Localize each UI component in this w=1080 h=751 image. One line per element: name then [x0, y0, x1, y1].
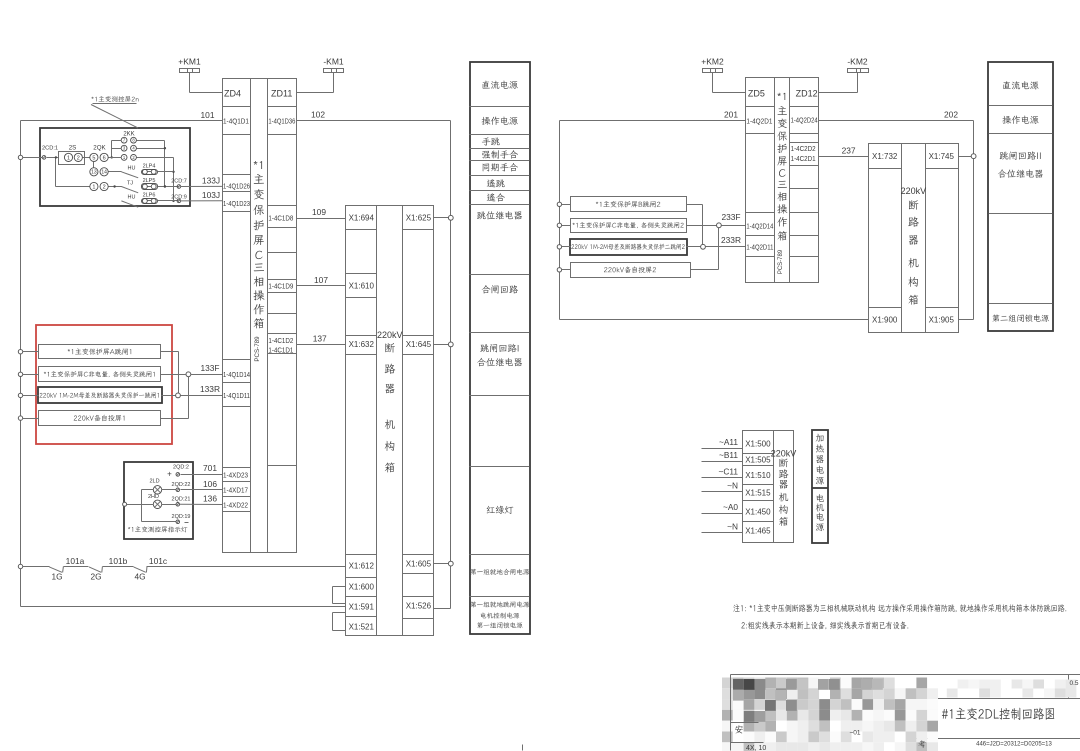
terminal 1-4Q1D14	[223, 370, 250, 379]
signal box C-nonelec-1	[39, 367, 161, 382]
fuse terminal -KM2	[847, 56, 868, 92]
wire 101c segment	[103, 556, 168, 566]
legend trip circuit I / closed position relay	[477, 344, 522, 367]
wire 109	[297, 207, 346, 219]
svg-text:X1:900: X1:900	[872, 315, 898, 324]
legend operating power 2	[1002, 116, 1038, 124]
svg-text:X1:500: X1:500	[745, 439, 771, 448]
terminal X1:732	[872, 152, 898, 161]
fuse terminal +KM1	[178, 56, 201, 92]
svg-text:1-4Q1D14: 1-4Q1D14	[223, 370, 250, 379]
wire +KM2 to ZD5	[713, 92, 746, 94]
ZD11 cell dividers	[268, 107, 297, 466]
svg-text:~N: ~N	[727, 481, 738, 491]
svg-text:103J: 103J	[202, 190, 220, 200]
wire 136	[180, 494, 222, 505]
svg-text:+KM1: +KM1	[178, 56, 201, 66]
jumper X1:591 to X1:521	[333, 613, 346, 631]
terminal 2QD:21	[172, 497, 191, 506]
svg-text:5: 5	[92, 155, 95, 161]
svg-text:101b: 101b	[109, 556, 128, 566]
wire 137	[297, 333, 346, 344]
svg-text:X1:905: X1:905	[929, 315, 955, 324]
svg-text:X1:465: X1:465	[745, 526, 771, 535]
legend trip circuit II / closed position relay 2	[998, 151, 1043, 178]
signal box B-trip-2	[571, 197, 687, 212]
jumper X1:600 to X1:591	[333, 587, 346, 604]
wire -KM2 to ZD12	[819, 92, 858, 94]
wire -KM1 to ZD11	[297, 92, 334, 94]
terminal block ZD5 outline	[746, 78, 819, 283]
terminal 1-4XD23	[223, 470, 248, 479]
terminal 1-4Q1D11	[223, 391, 250, 400]
legend trip position relay	[477, 211, 522, 219]
wire box C to 133F node	[161, 374, 186, 376]
terminal 1-4C2D2 / 1-4C2D1	[791, 144, 816, 163]
wire ~A0	[702, 502, 743, 513]
svg-text:X1:521: X1:521	[349, 622, 375, 631]
terminal X1:605	[406, 560, 432, 569]
signal box 220kV autoswitch-1	[39, 411, 161, 426]
X1 left column dividers	[346, 230, 377, 617]
terminal 1-4Q1D1	[223, 117, 249, 126]
svg-text:X1:505: X1:505	[745, 456, 771, 465]
svg-text:2: 2	[132, 155, 135, 160]
wire box C2 to 233F node	[687, 225, 717, 227]
svg-text:233F: 233F	[721, 212, 740, 222]
svg-text:~01: ~01	[849, 729, 860, 736]
contact TJ with link 2LP5	[121, 178, 178, 193]
legend red green lamp	[487, 506, 514, 514]
svg-text:X1:515: X1:515	[745, 489, 771, 498]
terminal 2CD:7	[171, 179, 187, 189]
indicator lamp box outline	[124, 462, 193, 539]
junction node 233R	[701, 244, 706, 249]
svg-text:~B11: ~B11	[719, 450, 738, 460]
signal box 220kV autoswitch-2	[571, 263, 691, 278]
terminal 1-4C1D8	[268, 213, 293, 222]
svg-text:2CD:1: 2CD:1	[42, 145, 58, 151]
terminal X1:612	[349, 562, 375, 571]
svg-text:220kV: 220kV	[377, 330, 403, 340]
right vertical bus group 2	[959, 121, 974, 320]
wire X1:745 to bus	[959, 154, 976, 159]
wire box autoswitch2 up to 233F node	[691, 226, 719, 270]
X1 right column dividers	[403, 230, 434, 619]
terminal X1:610	[349, 281, 375, 290]
svg-text:220kV: 220kV	[771, 449, 797, 459]
svg-text:1-4C1D1: 1-4C1D1	[268, 345, 293, 354]
lamp 2LD	[149, 479, 176, 494]
AC supply terminal box outline	[743, 431, 794, 543]
terminal 1-4Q1D23	[223, 199, 250, 208]
label 220kV breaker mechanism box 1	[377, 330, 403, 472]
svg-text:ZD5: ZD5	[748, 89, 765, 99]
note 1	[733, 604, 1066, 612]
legend panel 1 outline	[470, 62, 530, 634]
legend closing circuit	[482, 285, 518, 294]
drawing number	[976, 742, 1052, 748]
legend DC power	[483, 81, 518, 89]
wire X1:625 to bus	[434, 215, 454, 220]
svg-text:1-4Q2D11: 1-4Q2D11	[746, 243, 773, 252]
svg-text:1G: 1G	[51, 571, 62, 581]
wire box B to 233R node	[687, 205, 703, 247]
terminal 2QD:22	[172, 482, 191, 491]
svg-text:2S: 2S	[69, 144, 77, 151]
terminal 2CD:9	[171, 194, 187, 202]
svg-text:X1:526: X1:526	[406, 602, 432, 611]
svg-text:1-4Q1D23: 1-4Q1D23	[223, 199, 250, 208]
svg-text:1-4XD17: 1-4XD17	[223, 485, 248, 494]
terminal X1:625	[406, 214, 432, 223]
wire 701	[181, 463, 223, 474]
svg-text:701: 701	[203, 463, 217, 473]
terminal X1:450	[745, 507, 771, 516]
svg-text:1-4Q2D1: 1-4Q2D1	[746, 117, 772, 126]
label indicator lamps	[128, 526, 187, 532]
wire 101	[21, 110, 223, 121]
svg-text:1-4Q2D24: 1-4Q2D24	[791, 115, 818, 124]
label PCS-789	[254, 336, 261, 362]
svg-text:X1:694: X1:694	[349, 214, 375, 223]
svg-text:X1:591: X1:591	[349, 602, 375, 611]
svg-text:1: 1	[123, 155, 126, 160]
svg-text:1-4Q1D26: 1-4Q1D26	[223, 181, 250, 190]
fuse terminal +KM2	[701, 56, 724, 92]
svg-text:X1:732: X1:732	[872, 152, 898, 161]
svg-text:2CD:7: 2CD:7	[171, 179, 187, 185]
svg-text:~N: ~N	[727, 522, 738, 532]
terminal 1-4C1D2 / 1-4C1D1	[268, 336, 293, 354]
svg-text:PCS-789: PCS-789	[778, 249, 784, 274]
svg-text:X1:605: X1:605	[406, 560, 432, 569]
svg-text:2HD: 2HD	[148, 494, 159, 500]
legend forced manual close	[482, 150, 518, 159]
title text #1 main transformer 2DL control circuit diagram	[942, 708, 1054, 720]
wire X1:605 to bus	[434, 561, 454, 566]
svg-text:133J: 133J	[202, 176, 220, 186]
svg-text:202: 202	[944, 110, 958, 120]
svg-text:X1:625: X1:625	[406, 214, 432, 223]
terminal X1:632	[349, 340, 375, 349]
label heater power	[816, 434, 824, 485]
bottom tick	[522, 745, 524, 751]
title block frame	[731, 675, 1080, 751]
wire X1:645 to bus	[434, 342, 454, 347]
X2 right dividers	[926, 169, 959, 308]
switch 2S	[59, 144, 90, 164]
label motor power	[816, 494, 824, 531]
terminal block ZD4 outline	[223, 79, 297, 553]
legend panel 2 dividers	[989, 106, 1053, 304]
svg-text:1-4XD22: 1-4XD22	[223, 500, 248, 509]
wire ~A11	[702, 437, 743, 449]
svg-text:-KM2: -KM2	[847, 56, 868, 66]
terminal 1-4Q2D11	[746, 243, 773, 252]
contact HU with link 2LP4	[121, 163, 173, 177]
svg-text:1-4Q1D1: 1-4Q1D1	[223, 117, 249, 126]
terminal 2QD:19	[172, 514, 191, 523]
terminal 1-4XD17	[223, 485, 248, 494]
svg-text:4: 4	[132, 146, 135, 151]
svg-text:133R: 133R	[200, 384, 220, 394]
svg-text:2QK: 2QK	[93, 144, 106, 151]
svg-text:109: 109	[312, 207, 326, 217]
censored mosaic	[722, 678, 1076, 751]
annotation *1 metering panel 2n	[91, 96, 138, 128]
svg-text:1-4C2D2: 1-4C2D2	[791, 144, 816, 153]
wire 201	[560, 110, 746, 121]
svg-text:220kV: 220kV	[901, 186, 927, 196]
switch 2QK contacts 1-2	[55, 156, 122, 190]
control switch box outline	[40, 128, 190, 206]
junction node 233F	[717, 223, 722, 228]
junction node 133R	[176, 393, 181, 398]
wire 133J	[181, 176, 222, 187]
svg-text:TJ: TJ	[127, 180, 133, 186]
wire ~N1	[702, 481, 743, 492]
svg-text:1-4XD23: 1-4XD23	[223, 470, 248, 479]
svg-text:7: 7	[123, 138, 126, 143]
svg-text:X1:610: X1:610	[349, 281, 375, 290]
heater motor power box outline	[812, 430, 828, 543]
terminal 2CD:1	[23, 145, 59, 159]
wire box autoswitch up to 133F node	[161, 375, 189, 419]
note 2	[741, 621, 908, 629]
svg-text:133F: 133F	[200, 363, 219, 373]
terminal 1-4C1D9	[268, 281, 293, 290]
terminal 1-4Q2D24	[791, 115, 818, 124]
svg-text:2: 2	[77, 155, 80, 161]
svg-text:2LP4: 2LP4	[143, 163, 156, 169]
terminal 1-4Q1D36	[268, 117, 295, 126]
partially visible residual marks	[735, 680, 1079, 751]
svg-text:X1:612: X1:612	[349, 562, 375, 571]
wire box busdiff2 to 233R node	[687, 246, 701, 248]
label ZD11	[271, 89, 292, 99]
terminal 2QD:2	[167, 464, 189, 478]
terminal X1:505	[745, 456, 771, 465]
wire 102	[297, 110, 451, 121]
terminal 1-4Q1D26	[223, 181, 250, 190]
terminal 1-4XD22	[223, 500, 248, 509]
label 220kV breaker mechanism box 2	[901, 186, 927, 305]
red highlight box	[36, 325, 172, 444]
legend synchronized manual close	[483, 163, 518, 172]
signal box busdiff-trip-2 (bold)	[570, 239, 687, 255]
label 220kV breaker mechanism box 3	[771, 449, 797, 526]
svg-text:1-4Q1D11: 1-4Q1D11	[223, 391, 250, 400]
switch 4G	[134, 567, 147, 582]
legend first group local closing power	[470, 569, 529, 575]
legend DC power 2	[1003, 81, 1038, 89]
terminal X1:900	[872, 315, 898, 324]
wire 233F	[721, 212, 745, 225]
svg-text:+KM2: +KM2	[701, 56, 724, 66]
wire ~B11	[702, 450, 743, 461]
label PCS-789 group 2	[778, 249, 784, 274]
svg-text:6: 6	[103, 155, 106, 161]
legend remote trip	[487, 179, 505, 187]
breaker mechanism box 1 outline	[346, 206, 434, 636]
svg-text:2QD:2: 2QD:2	[173, 464, 189, 470]
AC box dividers	[743, 454, 774, 522]
wire +KM1 to ZD4	[190, 92, 223, 94]
2KK wiring	[109, 141, 175, 203]
svg-text:107: 107	[314, 275, 328, 285]
svg-text:X1:450: X1:450	[745, 507, 771, 516]
switch 1G	[49, 567, 63, 582]
svg-text:137: 137	[313, 333, 327, 343]
svg-text:PCS-789: PCS-789	[254, 336, 261, 362]
contact HU with link 2LP6	[121, 192, 178, 207]
svg-text:233R: 233R	[721, 235, 741, 245]
svg-text:X1:745: X1:745	[929, 152, 955, 161]
signal box A-trip-1	[39, 345, 161, 359]
terminal X1:526	[406, 602, 432, 611]
svg-text:ZD12: ZD12	[796, 89, 818, 99]
svg-text:2QD:22: 2QD:22	[172, 482, 191, 488]
svg-text:1-4C2D1: 1-4C2D1	[791, 154, 816, 163]
label ZD4	[224, 89, 241, 99]
wire 101a segment	[23, 556, 85, 566]
right vertical bus group1	[434, 121, 451, 609]
svg-text:~A0: ~A0	[723, 502, 738, 512]
ZD5 cell dividers	[746, 107, 775, 257]
svg-text:2QD:19: 2QD:19	[172, 514, 191, 520]
svg-text:2LD: 2LD	[149, 479, 159, 485]
svg-text:~A11: ~A11	[719, 437, 738, 447]
svg-text:102: 102	[311, 110, 325, 120]
bus junctions for signal boxes 2	[557, 202, 570, 272]
svg-text:1-4Q2D14: 1-4Q2D14	[746, 222, 773, 231]
svg-text:13: 13	[91, 170, 97, 176]
left bus wire	[21, 121, 346, 607]
svg-text:+: +	[167, 470, 172, 479]
legend first group local trip power	[470, 601, 529, 628]
legend manual trip	[482, 137, 500, 145]
auxiliary switch 2KK	[121, 131, 136, 160]
wire to X1:612	[147, 566, 346, 568]
svg-text:106: 106	[203, 479, 217, 489]
wire 133R	[181, 384, 223, 395]
svg-text:HU: HU	[128, 166, 136, 172]
svg-text:-KM1: -KM1	[323, 56, 344, 66]
svg-text:0.5: 0.5	[1069, 680, 1078, 687]
bus junctions for signal boxes 1	[18, 350, 38, 421]
terminal X1:500	[745, 439, 771, 448]
wire 133F	[191, 363, 223, 374]
label *1 main transformer protection panel C three-phase operation box	[253, 161, 264, 328]
svg-text:2LP6: 2LP6	[143, 192, 156, 198]
svg-text:2QD:21: 2QD:21	[172, 497, 191, 503]
wire 106	[181, 479, 223, 490]
svg-text:2G: 2G	[90, 571, 101, 581]
wire ~N2	[702, 522, 743, 533]
svg-text:237: 237	[842, 145, 856, 155]
wire 202	[819, 110, 974, 121]
label ZD5	[748, 89, 765, 99]
svg-text:~C11: ~C11	[719, 467, 739, 477]
wire 101b segment	[64, 556, 128, 566]
terminal 1-4Q2D14	[746, 222, 773, 231]
switch 2QK contacts 13-14	[90, 162, 122, 176]
legend panel 1 dividers	[470, 107, 530, 597]
signal box busdiff-trip-1 (bold)	[38, 387, 162, 403]
terminal X1:745	[929, 152, 955, 161]
title block left cell lines	[731, 675, 764, 751]
svg-text:2: 2	[103, 184, 106, 190]
svg-text:136: 136	[203, 494, 217, 504]
legend remote close	[487, 193, 505, 202]
svg-text:8: 8	[132, 138, 135, 143]
switch 2G	[89, 567, 102, 582]
svg-text:X1:600: X1:600	[349, 583, 375, 592]
label ZD12	[796, 89, 818, 99]
X2 left dividers	[869, 169, 902, 308]
svg-text:1-4C1D2: 1-4C1D2	[268, 336, 293, 345]
wire ~C11	[702, 467, 743, 478]
terminal X1:510	[745, 471, 771, 480]
svg-text:X1:645: X1:645	[406, 340, 432, 349]
svg-text:1: 1	[67, 155, 70, 161]
wire box busdiff to 133R node	[162, 395, 176, 397]
legend panel 2 outline	[988, 62, 1053, 331]
svg-text:X1:632: X1:632	[349, 340, 375, 349]
terminal X1:694	[349, 214, 375, 223]
terminal X1:600	[349, 583, 375, 592]
ZD4 cell dividers	[223, 107, 251, 512]
junction circle bottom bus	[18, 564, 22, 568]
svg-text:HU: HU	[128, 195, 136, 201]
svg-text:4G: 4G	[134, 571, 145, 581]
lamp box internal wiring	[123, 490, 177, 522]
svg-text:2KK: 2KK	[123, 131, 134, 137]
svg-text:1-4C1D9: 1-4C1D9	[268, 281, 293, 290]
svg-text:3: 3	[123, 146, 126, 151]
legend second group locking power	[992, 314, 1049, 322]
ZD12 cell dividers	[790, 107, 819, 257]
svg-text:101a: 101a	[66, 556, 85, 566]
svg-text:ZD4: ZD4	[224, 89, 241, 99]
svg-text:1: 1	[92, 184, 95, 190]
svg-text:101c: 101c	[149, 556, 167, 566]
terminal X1:521	[349, 622, 375, 631]
terminal 1-4Q2D1	[746, 117, 772, 126]
breaker mechanism box 2 outline	[869, 144, 959, 333]
switch 2QK contacts 5-6	[90, 144, 121, 161]
signal box C-nonelec-2	[571, 219, 687, 233]
wire 103J	[181, 190, 222, 201]
junction node 133F	[186, 372, 191, 377]
legend operating power	[482, 117, 518, 125]
wire 107	[297, 275, 346, 286]
terminal X1:465	[745, 526, 771, 535]
svg-text:201: 201	[724, 110, 738, 120]
svg-text:ZD11: ZD11	[271, 89, 292, 99]
junction on bus for 2CD:1	[18, 155, 22, 159]
svg-text:14: 14	[101, 170, 107, 176]
svg-text:1-4Q1D36: 1-4Q1D36	[268, 117, 295, 126]
terminal X1:515	[745, 489, 771, 498]
terminal X1:591	[349, 602, 375, 611]
terminal X1:645	[406, 340, 432, 349]
svg-text:101: 101	[201, 110, 215, 120]
terminal X1:905	[929, 315, 955, 324]
svg-text:446=J2D=20312=D0205=13: 446=J2D=20312=D0205=13	[976, 742, 1052, 748]
label *1 protection panel C operation box group 2	[777, 93, 787, 241]
